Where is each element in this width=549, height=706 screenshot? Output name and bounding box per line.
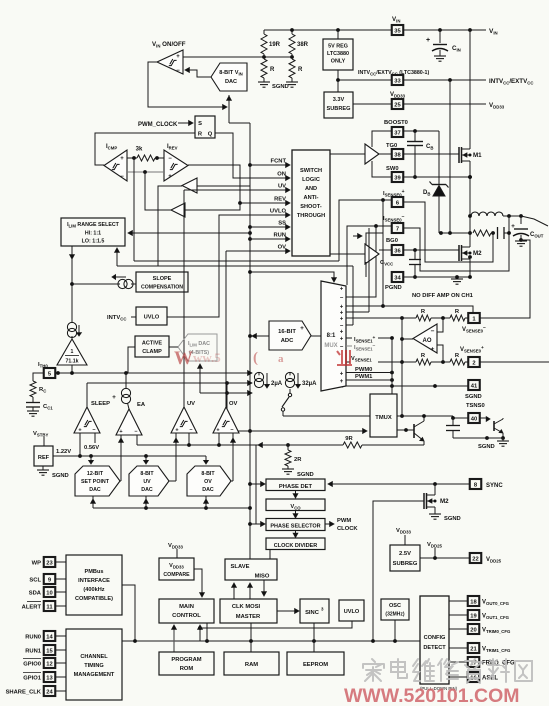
- wire VCO to PHASE SELECTOR arrow: [293, 511, 298, 519]
- svg-text:PWM_CLOCK: PWM_CLOCK: [138, 122, 178, 128]
- svg-text:SET POINT: SET POINT: [81, 479, 110, 485]
- block PHASE DET: [266, 479, 325, 491]
- current source ITH: [67, 322, 81, 337]
- latch S-R: [195, 116, 215, 138]
- svg-text:OV: OV: [204, 479, 212, 485]
- svg-text:3k: 3k: [136, 147, 143, 153]
- svg-text:BG0: BG0: [386, 238, 398, 244]
- wire SINC3 to bus: [313, 623, 315, 641]
- pin 15 RUN1: [25, 645, 66, 655]
- svg-text:38: 38: [394, 152, 401, 158]
- svg-text:GPIO0: GPIO0: [23, 661, 41, 667]
- node VIN rail top: [468, 28, 472, 32]
- svg-text:21: 21: [470, 646, 477, 652]
- pin 12 GPIO0: [23, 658, 66, 668]
- mux input mark y=346: [340, 344, 344, 350]
- buffer T1: [182, 178, 197, 193]
- capacitor CB: [407, 131, 433, 179]
- svg-text:COUT: COUT: [530, 232, 544, 239]
- wire rail to PHASE SELECTOR arrow: [248, 522, 265, 527]
- ground SGND under REF: [37, 466, 69, 479]
- wire pin1 to COUT ground: [480, 240, 530, 318]
- wire bottom data bus: [122, 640, 420, 642]
- svg-text:UV: UV: [143, 479, 151, 485]
- wire ILIM DAC feed arrow: [198, 364, 252, 395]
- svg-text:AO: AO: [423, 338, 432, 344]
- block VCO: [266, 499, 325, 511]
- comparator OV: [213, 401, 239, 434]
- wire CLOCK DIVIDER to SLAVE: [269, 549, 271, 559]
- svg-text:COMPATIBLE): COMPATIBLE): [75, 596, 113, 602]
- wire PROGRAM ROM to MAIN CONTROL arrow: [172, 625, 177, 652]
- svg-text:INTVCC: INTVCC: [107, 315, 126, 322]
- svg-text:38R: 38R: [297, 42, 309, 48]
- wire REV branch to buffer T2 input: [185, 203, 240, 210]
- wire SET POINT DAC output: [120, 480, 121, 482]
- wire TG0 to M1 gate: [403, 153, 459, 155]
- wire RUN input arrow: [272, 233, 290, 242]
- wire M2 gate from bus rail: [373, 501, 424, 641]
- wire ADC output to rail: [248, 334, 269, 339]
- pin 34 PGND: [385, 272, 403, 291]
- pin 14 RUN0: [25, 631, 66, 641]
- resistor RC: [30, 381, 46, 397]
- wire Q output to ON input: [215, 133, 287, 178]
- svg-text:SINC: SINC: [305, 610, 320, 616]
- transistor M1: [459, 142, 482, 168]
- svg-text:COMPARE: COMPARE: [163, 572, 190, 578]
- wire SGND row to pin41: [346, 384, 469, 388]
- svg-text:DAC: DAC: [202, 487, 214, 493]
- svg-text:EEPROM: EEPROM: [303, 662, 328, 668]
- svg-text:VDD33: VDD33: [396, 528, 411, 535]
- svg-text:PHASE SELECTOR: PHASE SELECTOR: [270, 524, 320, 530]
- label PULL-DOWN PIN: [420, 686, 458, 691]
- svg-text:VSENSE1: VSENSE1: [351, 356, 372, 363]
- label TSNS0: [466, 403, 485, 409]
- wire arrow into mux top: [248, 270, 336, 282]
- svg-text:OV: OV: [278, 245, 287, 251]
- svg-text:CVCC: CVCC: [380, 260, 393, 267]
- svg-text:10: 10: [46, 590, 52, 596]
- wire comparator + input to divider taps: [183, 56, 292, 58]
- node ITH row x=72: [70, 371, 74, 375]
- wire OV DAC output: [231, 480, 233, 482]
- svg-text:71.1k: 71.1k: [66, 359, 79, 365]
- svg-text:ALERT: ALERT: [22, 604, 42, 610]
- diode DB (zener): [423, 182, 449, 234]
- svg-text:+: +: [431, 346, 435, 353]
- wire EEPROM to bus: [313, 641, 315, 652]
- wire PWM1 row: [346, 374, 394, 382]
- svg-text:RUN: RUN: [273, 233, 286, 239]
- svg-text:SGND: SGND: [444, 516, 461, 522]
- block RAM: [224, 652, 279, 675]
- block ILIM RANGE SELECT: [61, 218, 125, 246]
- wire PMBus to bus: [122, 585, 135, 641]
- svg-text:SW0: SW0: [386, 166, 399, 172]
- svg-text:CONFIG: CONFIG: [424, 635, 446, 641]
- driver BG0 buffer: [365, 244, 379, 264]
- svg-text:−: −: [189, 428, 192, 434]
- svg-text:ON: ON: [277, 172, 286, 178]
- wire SLEEP inputs: [78, 433, 99, 458]
- DAC 8-BIT OV: [187, 466, 231, 496]
- current source slope comp: [72, 275, 136, 289]
- svg-text:18: 18: [470, 599, 477, 605]
- comparator SLEEP: [74, 401, 110, 434]
- svg-text:19: 19: [470, 613, 477, 619]
- node bus x=314: [312, 639, 316, 643]
- svg-text:VDD25: VDD25: [427, 542, 442, 549]
- svg-text:DB: DB: [423, 190, 430, 197]
- svg-text:SS: SS: [278, 221, 286, 227]
- node slope row: [70, 282, 74, 286]
- wire ISENSE0- left to mux: [346, 224, 392, 297]
- svg-text:PWM0: PWM0: [355, 367, 372, 373]
- svg-text:GPIO1: GPIO1: [23, 675, 41, 681]
- block CLK MOSI MASTER: [220, 599, 277, 623]
- svg-text:SCL: SCL: [29, 577, 41, 583]
- node INTVCC branch: [336, 78, 452, 82]
- svg-text:UV: UV: [278, 184, 286, 190]
- svg-text:41: 41: [471, 383, 478, 389]
- wire SW0 to switch node: [403, 175, 472, 179]
- wire SW bracket to driver bottom: [372, 161, 392, 177]
- mux input mark y=325: [340, 323, 344, 329]
- comparator ICMP: [104, 144, 127, 181]
- wire DAC data bus: [91, 496, 252, 510]
- svg-text:+: +: [112, 394, 116, 401]
- wire SS from rail: [248, 225, 272, 229]
- wire ITH to RC: [33, 373, 44, 381]
- svg-text:+: +: [340, 371, 344, 377]
- svg-text:CLOCK DIVIDER: CLOCK DIVIDER: [274, 543, 317, 549]
- block PMBus INTERFACE: [66, 555, 122, 615]
- label VSTBY: [33, 431, 48, 446]
- label VSENSE1: [346, 356, 372, 363]
- svg-text:35: 35: [394, 28, 401, 34]
- wire VDD33 output: [353, 103, 486, 105]
- node ITH row x=58: [56, 371, 60, 375]
- wire ADC plus input: [311, 335, 321, 337]
- resistor 38R: [289, 30, 309, 57]
- resistor 3k: [127, 147, 164, 162]
- wire UV input arrow: [272, 184, 290, 193]
- svg-text:VDD33: VDD33: [169, 563, 184, 570]
- label NO DIFF AMP ON CH1: [412, 293, 474, 299]
- wire switch to TMUX row: [283, 415, 370, 417]
- wire minus input row from 9R divider: [137, 443, 288, 448]
- mux input mark y=312: [340, 310, 344, 316]
- wire UV inputs: [174, 433, 189, 481]
- capacitor CVCC: [380, 250, 421, 279]
- wire OSC to bus: [394, 620, 396, 641]
- pin 24 SHARE_CLK: [6, 686, 66, 696]
- block SLOPE COMPENSATION: [136, 272, 188, 292]
- current source 2uA: [254, 372, 282, 388]
- wire rail to RANGE SELECT arrow: [128, 231, 252, 236]
- pin 11 ALERT: [22, 601, 66, 611]
- svg-text:RUN0: RUN0: [25, 634, 41, 640]
- node ITH row x=126: [124, 371, 128, 375]
- svg-text:CLAMP: CLAMP: [142, 349, 162, 355]
- wire ISENSE0- right to sense RC: [403, 228, 509, 271]
- wire 5VREG to 3.3V SUBREG / INTVCC line: [338, 70, 486, 92]
- svg-text:11: 11: [46, 604, 53, 610]
- svg-text:8-BIT VIN: 8-BIT VIN: [219, 70, 243, 77]
- svg-text:OV: OV: [229, 401, 238, 407]
- svg-text:ONLY: ONLY: [331, 59, 346, 65]
- capacitor CC1: [26, 397, 53, 411]
- svg-text:INTVCC/EXTVCC (LTC3880-1): INTVCC/EXTVCC (LTC3880-1): [358, 70, 429, 77]
- pin 36 BG0: [379, 238, 403, 255]
- wire CLK MOSI to SINC3 arrow: [277, 609, 299, 614]
- node 3k right: [155, 156, 159, 160]
- svg-text:−: −: [340, 344, 344, 350]
- wire RUN from rail: [248, 237, 272, 241]
- node rail TMUX row: [248, 429, 252, 433]
- wire MAIN CONTROL to bus: [206, 623, 208, 641]
- wire REV input arrow: [272, 197, 290, 206]
- wire rail to PHASE DET arrow: [248, 482, 265, 487]
- svg-text:25: 25: [394, 102, 401, 108]
- wire switch node rail: [468, 168, 472, 235]
- svg-text:TSNS0: TSNS0: [466, 403, 485, 409]
- svg-text:CB: CB: [426, 144, 433, 151]
- svg-text:20: 20: [470, 627, 476, 633]
- svg-text:8-BIT: 8-BIT: [140, 471, 154, 477]
- wire SLAVE/CLK arrows: [232, 580, 267, 599]
- wire pin40 row: [397, 416, 469, 420]
- svg-text:9R: 9R: [345, 436, 353, 442]
- pin 39 SW0: [386, 166, 403, 182]
- svg-text:37: 37: [394, 130, 400, 136]
- svg-text:−: −: [92, 428, 95, 434]
- svg-text:ICMP: ICMP: [106, 144, 117, 151]
- wire T1 output: [158, 186, 182, 266]
- node 3k left: [132, 156, 136, 160]
- svg-text:ww.5: ww.5: [193, 350, 221, 365]
- wire pin2 to right edge: [480, 361, 549, 363]
- svg-text:MASTER: MASTER: [236, 614, 261, 620]
- node ICMP minus: [143, 170, 147, 174]
- svg-text:VSTBY: VSTBY: [33, 431, 48, 438]
- svg-text:ITH0: ITH0: [38, 362, 48, 369]
- capacitor CIN: [426, 30, 461, 61]
- svg-text:SGND: SGND: [272, 84, 289, 90]
- transistor QTSNS: [480, 417, 505, 440]
- svg-text:PMBus: PMBus: [85, 569, 104, 575]
- svg-text:DETECT: DETECT: [423, 645, 446, 651]
- wire REF 1.22V row: [53, 449, 206, 458]
- node divider tap 19R: [262, 55, 266, 59]
- pin 10 SDA: [29, 587, 66, 597]
- svg-text:+: +: [120, 156, 124, 162]
- wire PWM CLOCK output: [325, 518, 358, 532]
- svg-text:RAM: RAM: [245, 662, 258, 668]
- svg-text:M2: M2: [440, 498, 449, 505]
- wire BG0 to M2 gate: [403, 248, 459, 252]
- svg-text:MUX: MUX: [324, 343, 337, 349]
- switch under 32uA: [281, 389, 291, 416]
- svg-text:SHOOT-: SHOOT-: [300, 204, 322, 210]
- svg-text:+: +: [340, 329, 344, 335]
- wire DAC output to comparator - input: [185, 68, 211, 77]
- svg-text:24: 24: [46, 689, 53, 695]
- capacitor COUT: [511, 216, 544, 246]
- wire mux row 312: [346, 228, 369, 312]
- wire x227 rail: [225, 381, 229, 431]
- svg-text:PHASE DET: PHASE DET: [279, 484, 313, 490]
- svg-text:14: 14: [46, 634, 53, 640]
- node bus x=251: [249, 639, 253, 643]
- svg-text:UVLO: UVLO: [270, 209, 287, 215]
- svg-text:19R: 19R: [269, 42, 281, 48]
- wire mux row to top R row: [346, 317, 416, 319]
- svg-text:REF: REF: [38, 455, 50, 461]
- node 9R left: [286, 443, 336, 447]
- pin 1 VSENSE0-: [462, 313, 486, 334]
- wire ICMP output to R input: [95, 133, 195, 165]
- wire into TMUX arrow: [227, 429, 367, 434]
- svg-text:TG0: TG0: [386, 143, 397, 149]
- svg-text:FCNT: FCNT: [271, 159, 287, 165]
- resistor R (fb bottom): [416, 353, 431, 365]
- svg-text:12-BIT: 12-BIT: [87, 471, 104, 477]
- svg-text:ILIM RANGE SELECT: ILIM RANGE SELECT: [67, 222, 120, 229]
- wire ON input arrow: [272, 172, 290, 181]
- svg-text:LO: 1:1.5: LO: 1:1.5: [82, 239, 105, 245]
- node AO feedback tap: [400, 316, 404, 339]
- pin 17 FREQ_CFG: [449, 657, 515, 667]
- svg-text:−: −: [134, 429, 137, 435]
- wire PHASE SELECTOR to CLOCK DIVIDER arrow: [293, 531, 298, 538]
- pin 5 ITH0: [38, 362, 55, 378]
- label PWM_CLOCK with arrow: [138, 121, 193, 128]
- wire IREV output to REV input: [188, 165, 287, 203]
- mux input mark y=386.5: [340, 385, 344, 391]
- node divider tap 38R: [290, 55, 294, 59]
- svg-text:INTVCC/EXTVCC: INTVCC/EXTVCC: [489, 78, 533, 86]
- svg-text:TMUX: TMUX: [375, 415, 392, 421]
- block ACTIVE CLAMP: [135, 336, 169, 357]
- svg-text:LTC3880: LTC3880: [327, 51, 349, 57]
- svg-text:WWW.520101.COM: WWW.520101.COM: [344, 685, 520, 706]
- svg-text:13: 13: [46, 675, 53, 681]
- wire 3k to cross row: [117, 158, 353, 266]
- driver TG0 buffer: [365, 144, 379, 164]
- resistor R (under 19R): [261, 59, 275, 82]
- comparator IREV: [164, 144, 188, 181]
- svg-text:CC1: CC1: [43, 404, 53, 411]
- mux input mark y=338: [340, 336, 344, 342]
- svg-text:ROM: ROM: [180, 666, 194, 672]
- svg-text:VDD33: VDD33: [390, 92, 406, 99]
- wire SYNC row to PHASE DET: [328, 482, 470, 487]
- amplifier EA: [116, 402, 146, 435]
- mux input mark y=380.5: [340, 379, 344, 385]
- wire ITH row: [55, 371, 252, 376]
- svg-text:MISO: MISO: [255, 574, 270, 580]
- wire BOOST0 to CB and DB: [403, 129, 439, 184]
- svg-text:−: −: [176, 68, 180, 74]
- wire SS input arrow: [272, 221, 290, 230]
- block SINC3: [300, 599, 329, 623]
- node 19R top: [290, 28, 294, 32]
- svg-text:7: 7: [396, 226, 399, 232]
- svg-text:1: 1: [71, 349, 74, 355]
- wire EA inputs: [119, 435, 137, 481]
- svg-text:+: +: [78, 428, 81, 434]
- transistor M2 (low side): [459, 233, 482, 266]
- current source EA: [112, 373, 130, 409]
- watermark url bottom: [344, 685, 520, 706]
- transistor M2 (sync): [424, 484, 449, 514]
- node REV branch: [238, 201, 242, 205]
- wire UV rail from UV comparator: [184, 190, 272, 407]
- wire CLK MOSI to RAM: [250, 623, 252, 652]
- resistor R (fb top): [416, 309, 431, 321]
- block CONFIG DETECT: [420, 596, 449, 684]
- wire OV inputs: [219, 433, 235, 481]
- svg-text:M1: M1: [473, 152, 482, 159]
- pin 25 VDD33: [390, 92, 406, 109]
- wire mux row 325: [346, 266, 353, 325]
- wire TMUX to QTMUX base: [397, 428, 414, 432]
- svg-text:LOGIC: LOGIC: [302, 177, 320, 183]
- svg-text:ILIM DAC: ILIM DAC: [188, 341, 210, 348]
- node CIN tap: [438, 28, 442, 32]
- svg-text:SHARE_CLK: SHARE_CLK: [6, 689, 42, 695]
- resistor R (under 38R): [289, 59, 303, 82]
- svg-text:PGND: PGND: [385, 285, 402, 291]
- ground under CC1: [27, 411, 39, 416]
- pin 38 TG0: [379, 143, 403, 159]
- svg-text:3.3V: 3.3V: [333, 97, 345, 103]
- svg-text:CHANNEL: CHANNEL: [80, 654, 108, 660]
- svg-text:−: −: [340, 295, 344, 301]
- pin 19 VOUT1_CFG: [449, 610, 510, 620]
- wire OV input arrow: [272, 245, 290, 254]
- wire central rail: [249, 123, 251, 559]
- node bus x=395: [393, 639, 397, 643]
- svg-text:CONTROL: CONTROL: [172, 613, 201, 619]
- block PROGRAM ROM: [159, 652, 214, 675]
- svg-text:1.22V: 1.22V: [56, 449, 71, 455]
- svg-text:33: 33: [394, 78, 401, 84]
- svg-text:−: −: [120, 174, 124, 180]
- svg-text:R: R: [270, 67, 275, 73]
- svg-text:(: (: [253, 350, 258, 366]
- wire pin41 left: [0, 0, 1, 1]
- DAC 8-BIT VIN DAC: [211, 63, 247, 91]
- op-amp AO: [413, 324, 437, 353]
- comparator VIN ON/OFF: [152, 41, 186, 74]
- wire up arrow into RANGE SELECT: [115, 248, 120, 266]
- svg-text:+: +: [426, 37, 430, 44]
- svg-text:39: 39: [394, 175, 401, 181]
- svg-text:−: −: [230, 428, 233, 434]
- svg-text:W: W: [174, 348, 193, 369]
- buffer T2: [171, 203, 185, 217]
- label ISENSE1+: [346, 336, 394, 343]
- svg-text:SUBREG: SUBREG: [327, 106, 351, 112]
- svg-text:16-BIT: 16-BIT: [278, 329, 296, 335]
- pin 16 ASEL: [449, 672, 498, 682]
- wire UVLO input arrow: [270, 209, 290, 218]
- svg-text:a: a: [278, 353, 284, 365]
